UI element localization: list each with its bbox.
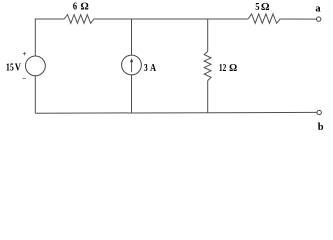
svg-text:6: 6 (73, 2, 77, 13)
svg-text:a: a (315, 4, 321, 15)
resistor R 6ohm zigzag (64, 15, 94, 24)
svg-text:15: 15 (6, 63, 14, 74)
resistor R 12ohm zigzag (204, 51, 211, 80)
svg-text:V: V (15, 63, 22, 74)
svg-text:Ω: Ω (81, 2, 89, 13)
wire 3A branch top (131, 19, 133, 55)
current source I1 arrow (130, 58, 133, 72)
wire top-left segment (35, 19, 64, 56)
current source I1 circle (122, 55, 142, 75)
voltage source V1 circle (26, 56, 46, 76)
wire top-right to terminal a (280, 18, 316, 20)
wire 12ohm branch bottom (207, 81, 209, 113)
svg-text:Ω: Ω (261, 2, 269, 13)
svg-text:12: 12 (219, 63, 226, 74)
svg-text:b: b (318, 122, 324, 133)
wire left rail below source (34, 76, 36, 113)
wire top middle (94, 18, 248, 20)
wire bottom rail (35, 111, 317, 114)
svg-text:A: A (150, 63, 156, 74)
terminal a circle (317, 17, 321, 21)
resistor R 5ohm zigzag (248, 14, 280, 23)
svg-text:+: + (23, 50, 27, 58)
svg-text:3: 3 (144, 63, 148, 74)
wire 3A branch bottom (131, 75, 133, 113)
wire 12ohm branch top (207, 19, 209, 51)
svg-text:−: − (22, 75, 26, 83)
terminal b circle (317, 110, 321, 114)
svg-text:Ω: Ω (229, 63, 237, 74)
svg-text:5: 5 (255, 2, 259, 13)
